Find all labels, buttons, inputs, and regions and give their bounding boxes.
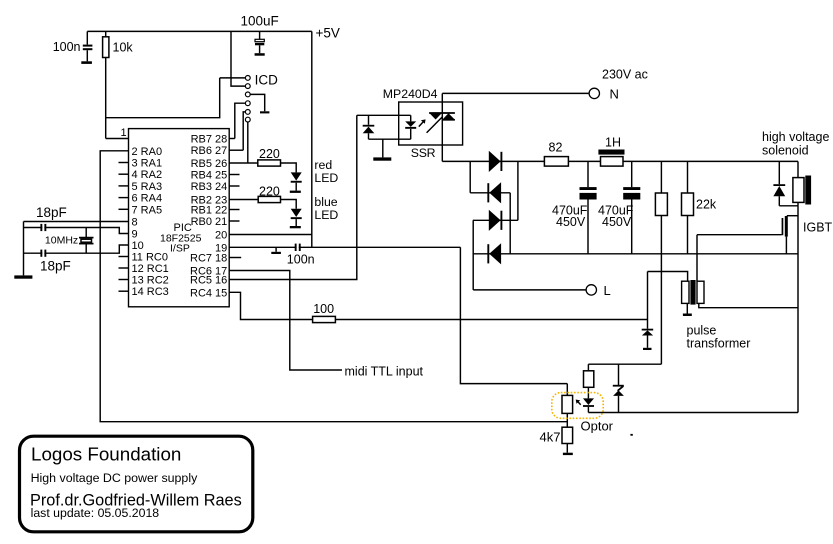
resistor R8 4k7 bbox=[562, 427, 573, 455]
node L terminal circle bbox=[586, 285, 596, 295]
capacitor C4 18pF top (series bars) bbox=[40, 224, 46, 231]
wire pin1 into chip bbox=[106, 138, 129, 140]
diode D4 bridge top bbox=[489, 151, 502, 172]
pin stubs left pins 11-14 bbox=[119, 257, 129, 292]
svg-text:1H: 1H bbox=[605, 135, 621, 149]
wire gate vertical bbox=[696, 235, 698, 282]
inductor L2 solenoid bbox=[793, 161, 811, 205]
svg-text:10MHz: 10MHz bbox=[45, 234, 78, 246]
wire drive drop from 100 line bbox=[647, 272, 649, 329]
wire pin16 RC5 to SSR input bbox=[229, 115, 357, 279]
svg-text:solenoid: solenoid bbox=[762, 143, 809, 157]
resistor R3 220 bbox=[258, 196, 280, 202]
diode D5 bridge bbox=[488, 182, 501, 203]
wire bridge mid vertical bbox=[509, 193, 511, 254]
transformer T1 pulse bbox=[682, 280, 704, 305]
svg-text:RB1 22: RB1 22 bbox=[191, 205, 228, 217]
svg-text:High voltage DC power supply: High voltage DC power supply bbox=[31, 471, 198, 485]
svg-text:3 RA1: 3 RA1 bbox=[132, 158, 163, 170]
zener D11 bbox=[613, 386, 624, 413]
arrow optical coupling bbox=[419, 119, 426, 126]
svg-text:1: 1 bbox=[121, 127, 127, 139]
resistor R4 82 bbox=[544, 157, 568, 167]
wire pin28 bbox=[229, 138, 235, 140]
wire pin27 bbox=[229, 149, 243, 151]
capacitor C2 100uF bbox=[255, 31, 264, 53]
diode D3 reverse protection bbox=[363, 115, 375, 139]
svg-text:ICD: ICD bbox=[255, 72, 279, 87]
LED D1 red bbox=[290, 172, 302, 193]
svg-text:100n: 100n bbox=[53, 40, 81, 54]
diode D9 bbox=[642, 329, 654, 350]
wire ICD c3 to ground bbox=[250, 94, 265, 111]
svg-text:4k7: 4k7 bbox=[540, 429, 561, 444]
svg-text:RB0 21: RB0 21 bbox=[191, 216, 228, 228]
svg-text:Optor: Optor bbox=[581, 418, 614, 433]
svg-text:220: 220 bbox=[259, 147, 280, 161]
svg-text:20: 20 bbox=[215, 230, 227, 242]
LED inside SSR bbox=[405, 115, 416, 139]
pin stubs right pins 25,24,22,21 bbox=[229, 175, 239, 222]
wire pin19 VSS long wire to right bbox=[229, 246, 460, 248]
svg-text:4 RA2: 4 RA2 bbox=[132, 169, 163, 181]
wire pin23 to blue LED bbox=[229, 200, 296, 209]
wire ICD c2 to +5V bbox=[231, 31, 245, 86]
wire pin15 RC4 to 100 resistor line bbox=[229, 292, 647, 319]
wire pin18 stub bbox=[229, 257, 241, 259]
triac inside SSR bbox=[427, 93, 455, 161]
capacitor C7 470uF bbox=[623, 161, 640, 253]
wire ICD c5 to pin27 bbox=[243, 112, 245, 150]
transistor Q1 IGBT bbox=[782, 216, 788, 254]
wire pin2 RA0 long left wire to optocoupler bbox=[100, 151, 567, 422]
wire L terminal bbox=[473, 289, 586, 291]
svg-text:RC4 15: RC4 15 bbox=[190, 287, 227, 299]
resistor R9 100 bbox=[313, 316, 336, 322]
svg-text:11 RC0: 11 RC0 bbox=[132, 252, 168, 264]
capacitor C5 18pF bottom (series bars) bbox=[40, 250, 46, 257]
svg-text:100uF: 100uF bbox=[241, 14, 279, 29]
svg-text:100: 100 bbox=[313, 302, 334, 316]
svg-text:RB6 27: RB6 27 bbox=[191, 145, 228, 157]
wire right tall vertical bbox=[797, 206, 799, 413]
svg-text:RB7 28: RB7 28 bbox=[191, 134, 228, 146]
wire pin17 RC6 midi input bbox=[229, 271, 342, 371]
svg-text:2 RA0: 2 RA0 bbox=[132, 146, 163, 158]
svg-text:6 RA4: 6 RA4 bbox=[132, 193, 163, 205]
node Logos Foundation title box bbox=[20, 436, 253, 532]
wire pin8 VSS to ground bbox=[24, 221, 129, 223]
svg-text:18pF: 18pF bbox=[36, 205, 67, 220]
svg-text:10k: 10k bbox=[113, 41, 134, 55]
diode D8 flyback bbox=[773, 161, 785, 205]
ground under C2 bbox=[255, 53, 265, 56]
ground transformer primary bbox=[683, 314, 692, 317]
crystal X1 10MHz bbox=[79, 228, 94, 254]
wire solenoid bottom node bbox=[779, 205, 798, 207]
wire main HV rail bbox=[442, 160, 798, 162]
wire ICD c1 bbox=[220, 77, 246, 79]
wire SSR input bottom bbox=[369, 138, 411, 140]
wire bottom DC rail bbox=[473, 253, 798, 255]
resistor R5 bbox=[655, 161, 667, 364]
wire +5V rail vertical bbox=[311, 31, 313, 247]
wire collector step bbox=[787, 215, 798, 217]
wire crystal left vertical bbox=[23, 222, 25, 276]
wire primary feed bbox=[648, 272, 688, 282]
svg-text:100n: 100n bbox=[287, 252, 315, 266]
svg-text:12 RC1: 12 RC1 bbox=[132, 263, 169, 275]
wire bridge left drop bbox=[469, 161, 471, 192]
pin labels left column bbox=[132, 146, 169, 298]
wire bottom return long bbox=[588, 412, 798, 414]
wire pin26 to red LED bbox=[229, 163, 296, 172]
wire zener drop bbox=[618, 364, 620, 385]
wire ICD c6 to pin26 bbox=[247, 122, 249, 163]
svg-text:22k: 22k bbox=[696, 198, 717, 212]
connector ICD pin circles bbox=[245, 76, 250, 123]
wire opto feed horizontal bbox=[588, 363, 661, 365]
wire 100n drop to opto bbox=[460, 247, 567, 383]
svg-text:L: L bbox=[604, 283, 611, 298]
LED D2 blue bbox=[290, 209, 302, 229]
svg-text:last update: 05.05.2018: last update: 05.05.2018 bbox=[31, 506, 160, 520]
svg-text:transformer: transformer bbox=[687, 337, 751, 351]
svg-text:LED: LED bbox=[314, 171, 338, 185]
svg-text:450V: 450V bbox=[602, 215, 632, 229]
wire MCLR to ICD pin1 bbox=[106, 78, 220, 118]
IC U1 PIC 18F2525 body bbox=[129, 129, 230, 307]
svg-text:MP240D4: MP240D4 bbox=[383, 87, 438, 101]
svg-text:high voltage: high voltage bbox=[762, 130, 829, 144]
svg-text:5 RA3: 5 RA3 bbox=[132, 181, 163, 193]
ground ICD c3 bbox=[260, 111, 269, 113]
svg-text:LED: LED bbox=[314, 208, 338, 222]
capacitor C1 100n bbox=[83, 31, 93, 61]
svg-text:RC7 18: RC7 18 bbox=[190, 253, 227, 265]
wire diode D6 row bbox=[473, 219, 518, 221]
svg-text:450V: 450V bbox=[556, 215, 586, 229]
resistor R2 220 bbox=[258, 160, 281, 166]
svg-text:+5V: +5V bbox=[316, 25, 340, 40]
svg-text:9: 9 bbox=[132, 229, 138, 241]
svg-text:8: 8 bbox=[132, 217, 138, 229]
diode D6 bridge bbox=[489, 210, 502, 231]
svg-text:82: 82 bbox=[549, 140, 563, 154]
wire pin9 OSC1 bbox=[24, 228, 129, 234]
phototransistor box in optocoupler bbox=[562, 384, 573, 428]
svg-text:13 RC2: 13 RC2 bbox=[132, 275, 169, 287]
svg-text:RB4 25: RB4 25 bbox=[191, 170, 228, 182]
svg-text:14 RC3: 14 RC3 bbox=[132, 286, 169, 298]
ground crystal bbox=[14, 275, 32, 278]
svg-text:RB3 24: RB3 24 bbox=[191, 181, 228, 193]
svg-text:220: 220 bbox=[259, 184, 280, 198]
svg-text:IGBT: IGBT bbox=[803, 220, 833, 234]
capacitor C6 470uF bbox=[580, 161, 597, 253]
svg-text:Logos Foundation: Logos Foundation bbox=[31, 444, 181, 465]
resistor R6 22k bbox=[682, 161, 694, 253]
capacitor C3 100n (series bars) bbox=[295, 244, 301, 251]
wire diode D5 row bbox=[470, 192, 510, 194]
ground SSR input bbox=[373, 139, 391, 161]
svg-text:RC5 16: RC5 16 bbox=[190, 275, 227, 287]
svg-text:10: 10 bbox=[132, 240, 144, 252]
svg-text:18pF: 18pF bbox=[40, 258, 71, 273]
box U2 SSR bbox=[399, 102, 463, 145]
wire bridge left lower vertical bbox=[472, 220, 474, 290]
ground under C1 bbox=[81, 61, 92, 64]
stray dot bbox=[630, 434, 632, 436]
svg-text:230V ac: 230V ac bbox=[602, 67, 648, 81]
wire pin20 VDD to +5V rail bbox=[229, 234, 312, 236]
resistor R1 10k bbox=[103, 31, 109, 138]
svg-text:N: N bbox=[610, 86, 619, 101]
svg-text:I/SP: I/SP bbox=[170, 243, 190, 255]
diode D7 bridge bottom bbox=[488, 243, 501, 264]
wire gate drive bbox=[697, 234, 782, 236]
wire primary to ground bbox=[686, 303, 688, 313]
arrow opto coupling bbox=[576, 400, 581, 405]
wire N terminal bbox=[442, 92, 589, 94]
resistor R7 bbox=[584, 364, 594, 398]
LED D10 inside optocoupler bbox=[583, 398, 594, 412]
wire +5V top rail bbox=[87, 30, 311, 32]
wire pin10 OSC2 bbox=[24, 245, 129, 253]
wire SSR input top bbox=[357, 114, 411, 116]
svg-text:red: red bbox=[314, 158, 332, 172]
box optocoupler highlight ring bbox=[552, 393, 603, 419]
node N terminal circle bbox=[589, 88, 599, 98]
wire ICD c4 to pin28 bbox=[235, 103, 246, 138]
svg-text:blue: blue bbox=[314, 195, 337, 209]
ground tick on pin19 wire bbox=[271, 247, 281, 254]
svg-text:7 RA5: 7 RA5 bbox=[132, 204, 163, 216]
wire bridge right riser bbox=[517, 161, 519, 220]
svg-text:RB5 26: RB5 26 bbox=[191, 158, 228, 170]
svg-text:pulse: pulse bbox=[687, 323, 717, 337]
wire secondary return bbox=[699, 303, 798, 307]
inductor L1 1H bbox=[598, 150, 624, 167]
svg-text:SSR: SSR bbox=[411, 146, 436, 160]
pin stubs left pins 3-7 bbox=[119, 163, 129, 210]
svg-text:midi TTL input: midi TTL input bbox=[345, 365, 424, 379]
pin labels right column bbox=[190, 134, 227, 300]
